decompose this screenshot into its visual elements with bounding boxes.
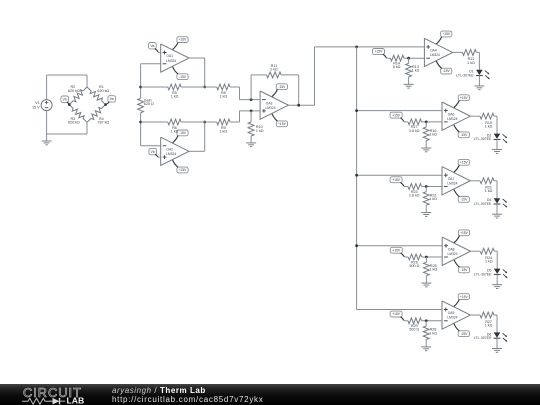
svg-text:+15V: +15V	[392, 113, 401, 117]
svg-text:LTL-307EE: LTL-307EE	[474, 202, 492, 206]
svg-text:-15V: -15V	[460, 198, 468, 202]
svg-text:+15V: +15V	[392, 248, 401, 252]
svg-text:+15V: +15V	[460, 295, 469, 299]
svg-text:+15V: +15V	[460, 231, 469, 235]
svg-text:OA8: OA8	[448, 247, 455, 251]
svg-text:LM324: LM324	[447, 316, 457, 320]
svg-text:LTL-307EE: LTL-307EE	[474, 137, 492, 141]
svg-text:OA6: OA6	[448, 112, 455, 116]
svg-text:LM324: LM324	[166, 59, 176, 63]
svg-text:1 kΩ: 1 kΩ	[467, 61, 475, 65]
svg-text:-15V: -15V	[460, 133, 468, 137]
svg-text:OA4: OA4	[430, 49, 437, 53]
svg-text:1 kΩ: 1 kΩ	[485, 260, 493, 264]
svg-text:LM324: LM324	[166, 152, 176, 156]
svg-text:+15V: +15V	[392, 178, 401, 182]
svg-text:OA9: OA9	[448, 311, 455, 315]
svg-text:1 kΩ: 1 kΩ	[485, 125, 493, 129]
svg-text:LM324: LM324	[447, 181, 457, 185]
svg-text:Vb: Vb	[63, 97, 67, 101]
svg-text:15 V: 15 V	[32, 105, 40, 109]
svg-text:+15V: +15V	[179, 168, 188, 172]
svg-text:LM324: LM324	[448, 252, 458, 256]
svg-text:OA1: OA1	[166, 54, 173, 58]
svg-text:+15V: +15V	[460, 96, 469, 100]
svg-text:1 kΩ: 1 kΩ	[171, 94, 179, 98]
svg-text:+15V: +15V	[460, 161, 469, 165]
svg-text:1 kΩ: 1 kΩ	[429, 132, 437, 136]
svg-text:-15V: -15V	[179, 75, 187, 79]
svg-text:-15V: -15V	[461, 268, 469, 272]
svg-text:OA7: OA7	[448, 177, 455, 181]
svg-text:500 Ω: 500 Ω	[409, 328, 419, 332]
svg-text:620 kΩ: 620 kΩ	[68, 121, 80, 125]
svg-text:LTL-307EE: LTL-307EE	[474, 336, 492, 340]
svg-text:900 Ω: 900 Ω	[409, 264, 419, 268]
svg-text:LM324: LM324	[265, 106, 275, 110]
svg-text:LM324: LM324	[447, 117, 457, 121]
svg-text:1 kΩ: 1 kΩ	[485, 323, 493, 327]
svg-text:1 kΩ: 1 kΩ	[256, 129, 264, 133]
svg-text:1.8 kΩ: 1.8 kΩ	[409, 193, 420, 197]
svg-text:+15V: +15V	[442, 32, 451, 36]
svg-text:LTL-307EE: LTL-307EE	[456, 74, 474, 78]
svg-text:+15V: +15V	[375, 50, 384, 54]
svg-text:620 Ω: 620 Ω	[144, 102, 154, 106]
svg-text:1 kΩ: 1 kΩ	[219, 94, 227, 98]
svg-text:+15V: +15V	[278, 122, 287, 126]
svg-text:1 kΩ: 1 kΩ	[429, 197, 437, 201]
svg-text:620 kΩ: 620 kΩ	[68, 89, 80, 93]
svg-text:-15V: -15V	[179, 131, 187, 135]
svg-text:LTL-307EE: LTL-307EE	[474, 272, 492, 276]
svg-text:OA3: OA3	[266, 101, 273, 105]
svg-text:8 kΩ: 8 kΩ	[393, 65, 401, 69]
svg-text:Va: Va	[110, 97, 114, 101]
svg-text:620 kΩ: 620 kΩ	[97, 89, 109, 93]
svg-text:787 kΩ: 787 kΩ	[97, 121, 109, 125]
svg-text:1 kΩ: 1 kΩ	[219, 129, 227, 133]
svg-text:LAB: LAB	[67, 396, 85, 405]
svg-text:-15V: -15V	[443, 69, 451, 73]
svg-text:-15V: -15V	[278, 85, 286, 89]
svg-text:1 kΩ: 1 kΩ	[270, 68, 278, 72]
svg-text:-15V: -15V	[460, 332, 468, 336]
svg-text:OA2: OA2	[166, 148, 173, 152]
svg-text:1 kΩ: 1 kΩ	[171, 129, 179, 133]
svg-text:1 kΩ: 1 kΩ	[429, 268, 437, 272]
svg-text:1 kΩ: 1 kΩ	[412, 69, 420, 73]
svg-text:+15V: +15V	[179, 38, 188, 42]
svg-text:1 kΩ: 1 kΩ	[429, 331, 437, 335]
svg-text:+15V: +15V	[392, 312, 401, 316]
svg-text:3.8 kΩ: 3.8 kΩ	[409, 129, 420, 133]
svg-text:LM324: LM324	[430, 53, 440, 57]
svg-text:1 kΩ: 1 kΩ	[485, 189, 493, 193]
svg-text:Vb: Vb	[151, 150, 155, 154]
svg-text:Va: Va	[151, 44, 155, 48]
